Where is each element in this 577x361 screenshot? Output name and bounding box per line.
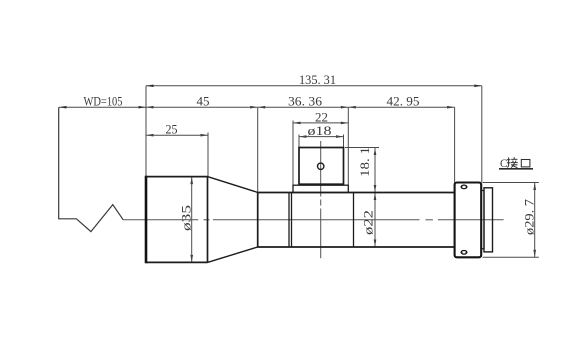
extension line x=257.7 (45/36.36) bbox=[257, 107, 259, 192]
dimension 42.95 bbox=[348, 106, 454, 109]
extension line x=293 (22 left, plate left) bbox=[292, 121, 294, 186]
cone section bbox=[208, 177, 259, 263]
main barrel ø22 bbox=[258, 193, 455, 248]
dimension 135.31 arrows bbox=[146, 85, 482, 88]
svg-text:22: 22 bbox=[315, 110, 328, 124]
object axis center line bbox=[123, 219, 503, 221]
flange (C-mount body) bbox=[455, 183, 482, 258]
box center circle bbox=[318, 163, 324, 169]
svg-text:C: C bbox=[500, 156, 508, 170]
dimension ø18 bbox=[299, 135, 344, 138]
dimension WD=105 bbox=[59, 106, 146, 108]
dimension ø22 (vertical) bbox=[374, 193, 377, 248]
box vertical center line bbox=[320, 141, 322, 258]
svg-text:ø18: ø18 bbox=[308, 124, 332, 138]
svg-text:ø35: ø35 bbox=[180, 205, 194, 231]
svg-text:ø22: ø22 bbox=[362, 210, 376, 235]
svg-text:135. 31: 135. 31 bbox=[299, 73, 336, 87]
screw bottom bbox=[461, 251, 467, 255]
ø29.7 extension lines bbox=[483, 182, 539, 184]
hanzi jie (接) strokes bbox=[507, 157, 518, 167]
front face (lens) bbox=[145, 176, 148, 263]
dimension 45 bbox=[146, 106, 258, 109]
svg-text:45: 45 bbox=[197, 95, 210, 109]
screw top bbox=[461, 185, 467, 189]
mount plate under box bbox=[293, 185, 348, 192]
dimension ø29.7 (vertical) bbox=[533, 183, 536, 258]
svg-text:ø29. 7: ø29. 7 bbox=[523, 199, 537, 235]
dimension 22 bbox=[293, 122, 348, 125]
svg-text:18. 1: 18. 1 bbox=[358, 147, 372, 177]
svg-text:25: 25 bbox=[166, 123, 178, 137]
dimension 135.31 line bbox=[146, 85, 482, 87]
extension line x=454.6 (42.95 right, flange left) bbox=[454, 107, 456, 182]
front cylinder ø35 bbox=[146, 177, 208, 263]
dimension 36.36 bbox=[258, 106, 349, 109]
svg-text:36. 36: 36. 36 bbox=[288, 95, 322, 109]
svg-text:WD=105: WD=105 bbox=[84, 95, 123, 109]
extension line right (flange right up) bbox=[481, 86, 483, 183]
extension line x=208 (25 right, cone start) bbox=[207, 133, 209, 177]
ø18 extension lines bbox=[298, 135, 300, 148]
extension line x=348.3 (36.36/42.95, plate right) bbox=[347, 107, 349, 185]
hanzi kou (口) bbox=[521, 160, 530, 167]
underline of label bbox=[499, 168, 533, 170]
dimension ø35 (vertical) bbox=[190, 177, 193, 263]
washer strip bbox=[481, 191, 484, 249]
dimension 25 bbox=[146, 134, 208, 137]
extension line left (front face up) bbox=[145, 86, 147, 177]
WD break line (zigzag) bbox=[59, 107, 124, 231]
barrel joint lines bbox=[289, 193, 354, 248]
thread cylinder bbox=[484, 188, 493, 252]
18.1 extension line horizontal bbox=[345, 147, 379, 149]
svg-text:42. 95: 42. 95 bbox=[387, 95, 420, 109]
square box ø18 bbox=[299, 148, 344, 185]
box bottom edge bbox=[299, 183, 344, 185]
dimension 18.1 (vertical) bbox=[374, 148, 377, 193]
